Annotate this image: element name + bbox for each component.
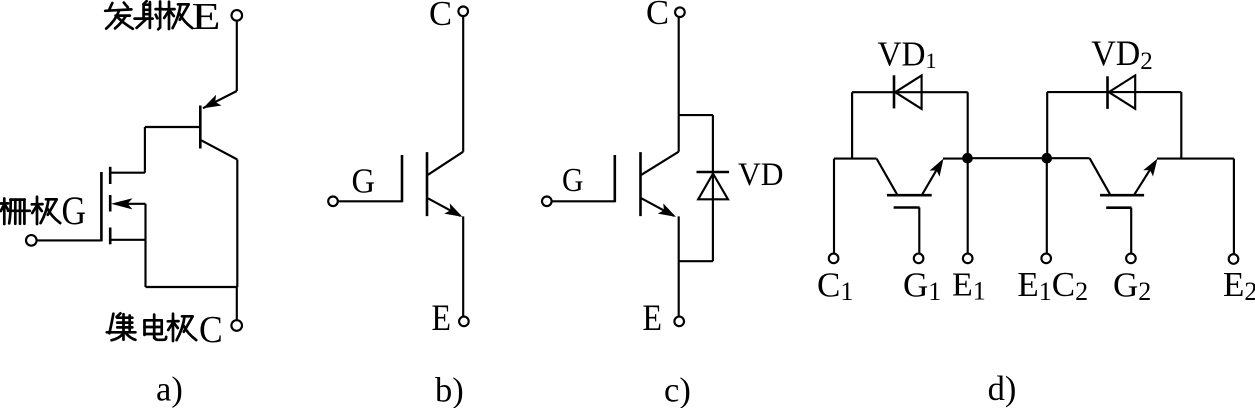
transistor IGBT emitter diagonal (b) [428, 198, 461, 216]
wire collector horizontal right module (d) [1047, 157, 1090, 159]
character 射 she (a top label) [135, 1, 163, 29]
svg-text:E: E [643, 298, 663, 339]
wire gate lead (c) [552, 200, 615, 202]
svg-text:C: C [429, 0, 452, 33]
arrow on MOSFET body lead of VT (a) [111, 198, 133, 209]
transistor V1 PNP collector diagonal (a) [200, 140, 237, 160]
wire emitter to E2 corner (d) [1157, 158, 1234, 160]
node E1 terminal circle (d) [963, 254, 973, 264]
svg-text:VD: VD [738, 157, 784, 193]
node E1C2 terminal circle (d) [1041, 254, 1051, 264]
wire diode VD2 row (d) [1047, 91, 1181, 93]
transistor IGBT body bar (b) [426, 152, 429, 216]
node G terminal circle (b) [328, 197, 338, 207]
wire gate lead (b) [338, 200, 402, 202]
transistor VT MOSFET gate bar (a) [100, 172, 103, 241]
wire collector (b) [462, 16, 464, 152]
wire C1 drop (d) [833, 159, 835, 254]
svg-text:C: C [199, 309, 223, 351]
wire VD1 right vertical (d) [967, 92, 969, 158]
wire E2 drop (d) [1233, 159, 1235, 255]
transistor IGBT1 body bar (d) [887, 194, 932, 197]
wire drain lead of MOSFET VT (a) [111, 172, 145, 174]
node C terminal circle (b) [458, 7, 468, 17]
node E terminal circle (b) [459, 317, 469, 327]
wire rail to C terminal (a) [236, 287, 238, 320]
node C terminal circle (c) [675, 7, 685, 17]
node E terminal circle (c) [674, 317, 684, 327]
node C terminal circle (a) [231, 320, 242, 331]
wire emitter (b) [462, 216, 464, 316]
wire collector vertical (a) [236, 160, 238, 288]
transistor IGBT2 emitter diagonal (d) [1135, 162, 1156, 195]
diode VD triangle (c) [698, 174, 728, 200]
wire bottom rail (a) [146, 286, 238, 288]
svg-text:b): b) [435, 372, 464, 408]
wire VD2 right vertical (d) [1180, 92, 1182, 159]
character 发 fa (a top label) [105, 3, 133, 29]
transistor V1 PNP base bar (a) [199, 106, 202, 149]
wire gate lead (a) [37, 239, 102, 241]
svg-text:E: E [432, 298, 452, 339]
wire E1C2 drop (d) [1046, 158, 1048, 253]
node G1 terminal circle (d) [914, 254, 924, 264]
wire VD1 left vertical (d) [851, 92, 853, 158]
character 集 ji2 (a bottom label) [107, 313, 136, 340]
diode VD2 triangle (d) [1109, 75, 1135, 108]
junction dot node1 (d) [962, 153, 973, 164]
wire source lead of VT (a) [111, 239, 146, 241]
svg-text:G: G [352, 162, 376, 200]
wire diode VD1 row (d) [852, 91, 968, 93]
node E terminal circle (a) [232, 10, 243, 21]
diode VD1 cathode bar (d) [893, 75, 896, 108]
transistor IGBT body bar (c) [639, 152, 642, 216]
wire collector horizontal left module (d) [834, 158, 877, 160]
wire emitter to node1 (d) [943, 158, 968, 160]
transistor IGBT2 gate bar (d) [1106, 206, 1131, 209]
arrow on PNP emitter of V1 (a) [200, 95, 221, 114]
transistor IGBT2 collector diagonal (d) [1090, 158, 1110, 194]
wire body lead of VT (a) [118, 203, 146, 205]
character 栅 shan (a gate label) [1, 199, 30, 225]
wire base lead of V1 (a) [145, 126, 200, 128]
arrow on IGBT2 emitter (d) [1143, 155, 1162, 176]
character 极 ji (a bottom label) [168, 314, 196, 341]
svg-text:E: E [192, 0, 221, 38]
svg-text:G: G [62, 188, 87, 233]
svg-text:C: C [646, 0, 669, 32]
transistor IGBT gate bar (b) [401, 155, 404, 202]
wire E1 drop (d) [967, 158, 969, 253]
wire top junction to diode branch (c) [679, 114, 713, 116]
transistor IGBT emitter diagonal (c) [641, 198, 674, 216]
arrow on IGBT emitter (b) [444, 203, 465, 222]
wire node1 to node2 link (d) [968, 157, 1047, 159]
node E2 terminal circle (d) [1229, 254, 1239, 264]
node C1 terminal circle (d) [829, 254, 839, 264]
wire diode branch vertical (c) [712, 115, 714, 261]
transistor V1 PNP emitter diagonal (a) [203, 91, 237, 108]
junction dot node2 (d) [1042, 153, 1053, 164]
wire VD2 left vertical (d) [1046, 92, 1048, 158]
svg-text:G: G [562, 162, 584, 199]
wire body-to-source vertical (a) [144, 204, 146, 287]
wire bottom junction (c) [679, 260, 713, 262]
node G terminal circle (a) [26, 235, 37, 246]
transistor IGBT collector diagonal (b) [428, 152, 463, 175]
svg-text:d): d) [988, 370, 1017, 408]
transistor VT MOSFET channel segment bottom (a) [109, 228, 112, 245]
arrow on IGBT emitter (c) [658, 203, 679, 222]
transistor IGBT2 body bar (d) [1100, 194, 1144, 197]
wire E terminal to emitter (a) [236, 21, 238, 91]
character 极 ji (a gate label) [32, 197, 60, 224]
character 电 dian (a bottom label) [145, 315, 167, 340]
wire emitter (c) [678, 216, 680, 316]
svg-text:c): c) [664, 371, 691, 408]
diode VD1 triangle (d) [895, 76, 921, 109]
node G2 terminal circle (d) [1126, 254, 1136, 264]
svg-text:a): a) [156, 371, 183, 408]
transistor IGBT1 gate bar (d) [894, 206, 920, 209]
transistor VT MOSFET channel segment top (a) [109, 167, 112, 184]
wire G2 drop (d) [1130, 208, 1132, 254]
transistor VT MOSFET channel segment middle (a) [109, 195, 112, 212]
arrow on IGBT1 emitter (d) [930, 156, 949, 177]
diode VD cathode bar (c) [697, 171, 730, 174]
transistor IGBT collector diagonal (c) [641, 152, 678, 175]
wire collector (c) [678, 17, 680, 152]
wire G1 drop (d) [918, 208, 920, 254]
wire riser base-to-drain (a) [144, 127, 146, 173]
transistor IGBT1 collector diagonal (d) [877, 159, 897, 195]
transistor IGBT gate bar (c) [613, 155, 616, 202]
character 极 ji (a top label) [164, 2, 192, 29]
transistor IGBT1 emitter diagonal (d) [922, 162, 941, 195]
node G terminal circle (c) [542, 197, 552, 207]
diode VD2 cathode bar (d) [1106, 76, 1109, 109]
